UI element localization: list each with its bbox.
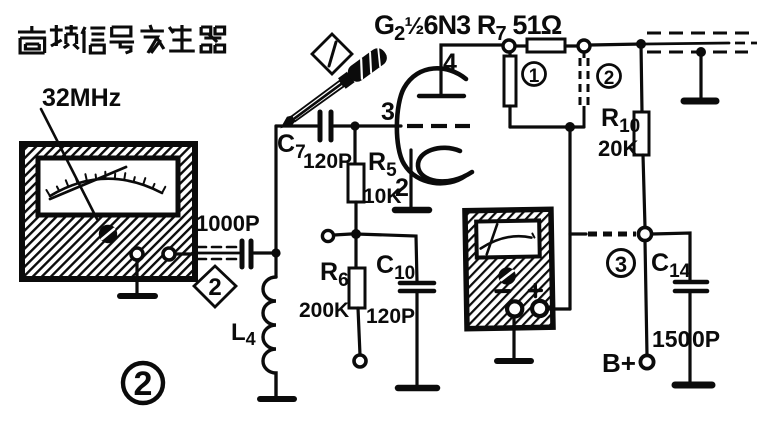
node E junction — [565, 122, 575, 132]
wire bottom of 1 and 2 — [510, 125, 584, 128]
shielded cable shield dashes — [197, 247, 238, 259]
char hao — [110, 27, 134, 53]
resistor R6 — [349, 268, 365, 308]
tube plate lead pin 4 — [441, 45, 504, 94]
wire node D down to R10 — [641, 44, 642, 112]
tube cathode lead pin 2 — [409, 150, 412, 208]
char xin — [82, 27, 105, 53]
svg-text:200K: 200K — [299, 299, 349, 322]
wire node 3 to C14 — [652, 233, 690, 280]
svg-text:150: 150 — [652, 326, 690, 352]
capacitor C14 — [675, 282, 707, 291]
wire C10 to ground — [415, 291, 418, 387]
circled 3 — [608, 250, 635, 278]
figure number circled 2 — [123, 363, 163, 403]
voltmeter M1 body — [465, 209, 553, 328]
char qi — [201, 27, 224, 52]
wire terminal to node C — [334, 234, 351, 235]
voltmeter tick — [532, 234, 534, 238]
shielded cable to 1000P (center wire) — [196, 252, 239, 255]
node A junction — [271, 248, 280, 257]
output cable center wire — [646, 43, 729, 44]
svg-text:1: 1 — [529, 66, 540, 87]
svg-text:2: 2 — [208, 274, 221, 301]
signal generator meter needle — [50, 167, 126, 199]
output cable shield dash bottom — [647, 51, 748, 54]
wire node B down to R5 — [353, 126, 356, 164]
32MHz callout line — [41, 109, 97, 219]
tube V1 envelope — [397, 68, 466, 183]
diamond callout 2 — [194, 266, 236, 307]
char fa — [140, 25, 163, 53]
signal generator terminal T2 — [163, 248, 175, 260]
output cable shield dash top — [647, 32, 752, 35]
wire voltmeter minus to ground — [512, 317, 515, 360]
B+ terminal circle — [640, 355, 653, 368]
wire R6 to terminal — [358, 308, 360, 355]
wire main vertical left — [274, 126, 277, 277]
ground (cathode) — [395, 207, 429, 214]
ground (C14) — [675, 382, 712, 389]
wire R10 to node 3 — [643, 155, 645, 227]
cable end dash — [735, 42, 757, 45]
svg-text:0P: 0P — [692, 326, 720, 352]
signal generator terminal T1 — [131, 248, 143, 260]
wire node C to C10 — [356, 234, 417, 281]
measure element 2 (dashed) — [580, 52, 588, 127]
ground (signal generator) — [120, 293, 155, 299]
node C junction — [351, 229, 361, 239]
wire node C down to R6 — [354, 234, 357, 268]
wire R7 right node to junction D — [590, 44, 641, 45]
wire C7 to tube grid — [334, 124, 401, 127]
capacitor 1000P — [242, 241, 251, 267]
svg-text:B+: B+ — [602, 348, 636, 378]
svg-text:120P: 120P — [366, 305, 415, 328]
voltmeter needle — [486, 224, 498, 254]
resistor R7 — [527, 39, 565, 52]
svg-text:2: 2 — [395, 174, 409, 202]
wire R7 to node — [565, 44, 578, 47]
tube grid dashes — [407, 124, 470, 128]
voltmeter plus sign — [529, 284, 541, 296]
ground (voltmeter) — [497, 358, 531, 364]
dashed link to node 3 — [588, 232, 636, 237]
capacitor C7 — [320, 112, 331, 140]
circled 2 — [598, 65, 621, 90]
svg-text:3: 3 — [615, 252, 627, 277]
tube cathode arc — [418, 148, 472, 182]
chinese title (pseudo glyphs) — [18, 25, 225, 53]
wire shield to ground — [699, 52, 702, 100]
measure resistor 1 (solid) — [504, 52, 516, 127]
wire T1 to ground — [135, 260, 138, 295]
inductor L4 — [263, 277, 276, 398]
resistor R5 — [348, 164, 364, 202]
wire node E down to voltmeter plus — [568, 127, 571, 309]
wire grid row horizontal — [276, 124, 317, 127]
svg-text:2: 2 — [134, 365, 153, 403]
wire voltmeter plus to node E line — [547, 307, 570, 310]
char gao — [18, 26, 46, 53]
ground (shield) — [684, 98, 716, 105]
shield junction dot — [696, 47, 706, 57]
resistor R10 — [634, 112, 649, 155]
wire R5 to node C — [354, 202, 357, 234]
voltmeter adjust screw — [499, 268, 514, 283]
voltmeter panel — [476, 220, 540, 257]
node 3 terminal circle — [638, 227, 651, 240]
voltmeter plus terminal — [532, 301, 547, 316]
voltmeter minus terminal — [507, 301, 522, 316]
node D junction — [636, 39, 646, 49]
wire node to R7 — [515, 44, 527, 47]
wire 1000P to node A — [254, 251, 277, 254]
terminal (left of node C) — [322, 230, 333, 241]
circled 1 — [523, 63, 546, 88]
terminal (below R6) — [354, 355, 366, 367]
ground (C10) — [398, 385, 437, 392]
wire T2 to cable — [175, 252, 196, 255]
signal generator meter panel — [38, 158, 178, 215]
svg-text:3: 3 — [381, 98, 395, 126]
node circle (R7 right) — [578, 40, 590, 52]
svg-text:32MHz: 32MHz — [42, 84, 121, 112]
tube plate bar — [419, 94, 464, 98]
svg-text:2: 2 — [604, 68, 615, 89]
signal generator adjust screw — [100, 226, 116, 242]
voltmeter minus sign — [496, 289, 509, 293]
voltmeter scale arc — [480, 236, 531, 249]
svg-text:120P: 120P — [303, 150, 352, 173]
svg-text:20K: 20K — [598, 136, 638, 161]
ground (L4) — [260, 396, 294, 402]
signal generator scale ticks — [46, 172, 165, 196]
diamond callout 1 — [312, 34, 352, 74]
screwdriver — [277, 45, 390, 134]
char sheng — [169, 25, 195, 51]
svg-text:1000P: 1000P — [196, 211, 260, 236]
signal generator meter scale arc — [50, 179, 162, 196]
wire stub to dashed link — [570, 232, 586, 235]
capacitor C10 — [400, 283, 434, 291]
wire C14 to ground — [688, 291, 691, 384]
signal generator SG1 box — [22, 144, 195, 279]
node circle (R7 left) — [503, 40, 515, 52]
wire node 3 down to B+ — [645, 241, 647, 355]
svg-text:4: 4 — [443, 49, 457, 77]
char pin — [50, 25, 79, 49]
node B junction — [350, 121, 359, 130]
